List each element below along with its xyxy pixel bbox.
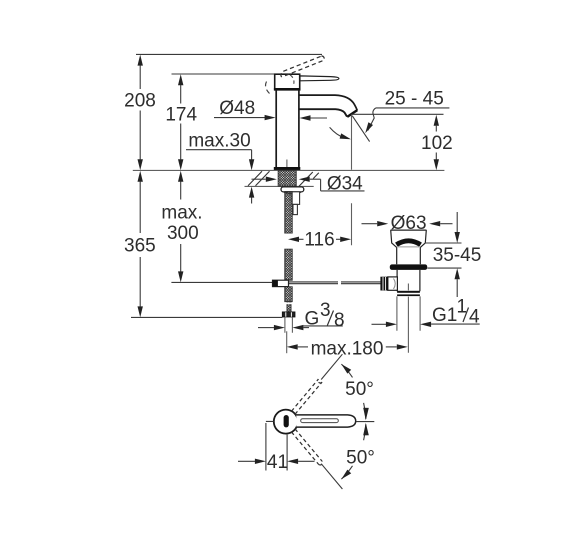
- reference line spout outlet level: [352, 113, 444, 115]
- mounting nut: [281, 187, 304, 194]
- reference line basin bottom (35-45): [427, 267, 461, 269]
- top view: lever slot: [301, 419, 339, 423]
- top view: handle pivot (black pill): [284, 415, 289, 427]
- dimension max.300 vertical: [161, 171, 202, 283]
- reference line bottom of max.300 (pop-up rod level): [171, 281, 272, 283]
- water stream vertical reference line: [351, 115, 353, 246]
- waste centerline: [407, 284, 409, 353]
- svg-text:Ø34: Ø34: [327, 173, 363, 194]
- svg-text:174: 174: [165, 104, 197, 125]
- dimension G3/8 (supply connection thread): [258, 300, 345, 333]
- dimension max.30 (deck thickness): [186, 131, 254, 204]
- hose end tube: [287, 302, 291, 312]
- top view: horizontal centerline: [266, 420, 374, 422]
- svg-text:116: 116: [304, 230, 334, 251]
- handle cap: [274, 74, 301, 89]
- svg-text:25 - 45: 25 - 45: [385, 88, 444, 109]
- pop-up waste rod (horizontal): [289, 282, 381, 284]
- svg-text:102: 102: [421, 133, 453, 154]
- top view: lever rotated +50 (dashed outline): [291, 379, 322, 414]
- deck bottom line: [245, 185, 314, 187]
- spout: [299, 95, 357, 117]
- deck (basin) top line: [133, 169, 445, 171]
- dimension 174 vertical: [165, 74, 197, 170]
- svg-text:50°: 50°: [346, 447, 375, 468]
- dashed tilt arc left of handle: [266, 82, 270, 94]
- svg-text:300: 300: [167, 223, 199, 244]
- top reference line (spout max height): [136, 53, 322, 55]
- svg-text:41: 41: [267, 452, 288, 473]
- svg-text:4: 4: [469, 306, 480, 327]
- pop-up waste plug head: [391, 230, 427, 247]
- dimension max.180 (center distance): [287, 331, 408, 359]
- reference line 174 (handle top): [172, 73, 275, 75]
- svg-text:208: 208: [124, 90, 156, 111]
- dimension Ø63 (waste flange): [362, 213, 453, 234]
- svg-text:max.: max.: [161, 203, 202, 224]
- top view: +50 arc with arrows: [341, 364, 368, 420]
- dimension 102 vertical: [421, 115, 453, 170]
- svg-text:Ø63: Ø63: [391, 213, 427, 234]
- waste body: [397, 270, 420, 291]
- faucet centerline: [286, 160, 288, 171]
- dashed pivot arc inside handle: [290, 75, 294, 84]
- dimension 365 vertical: [124, 171, 156, 318]
- dimension 35-45 (basin thickness): [433, 212, 482, 297]
- waste side port: [388, 277, 398, 290]
- lever handle (solid, horizontal): [300, 76, 339, 81]
- svg-text:Ø48: Ø48: [219, 98, 255, 119]
- knurled adjuster knob: [380, 277, 388, 291]
- svg-text:8: 8: [334, 310, 345, 331]
- top view: faucet body circle: [274, 410, 298, 434]
- lever handle raised position (dashed): [281, 56, 324, 78]
- dimension 41: [238, 423, 315, 473]
- top view: lever rotated -50 (dashed outline): [291, 429, 322, 465]
- stream swivel arc arrow: [330, 127, 351, 139]
- top view: +50 extension line: [321, 354, 342, 379]
- deck hatching: [248, 171, 319, 186]
- faucet base plate: [274, 167, 301, 170]
- waste neck: [397, 247, 421, 264]
- dimension Ø34 (deck hole): [252, 173, 365, 194]
- pull rod guide blocks: [292, 192, 300, 215]
- rod joint fitting: [273, 280, 289, 286]
- svg-text:G: G: [305, 309, 320, 330]
- label 25 - 45 (stream angle range): [365, 88, 449, 133]
- flexible supply hose lower segment: [285, 287, 292, 302]
- G3/8 hose nut: [282, 312, 295, 317]
- threaded shank through deck: [278, 171, 296, 187]
- top view: -50 arc with arrows: [341, 423, 368, 479]
- flexible supply hose (braided) upper segment: [285, 192, 292, 234]
- dimension 116 (spout projection): [288, 230, 351, 251]
- dimension Ø48 (body diameter): [214, 98, 327, 121]
- svg-text:50°: 50°: [345, 379, 374, 400]
- waste thread end bars: [397, 291, 420, 296]
- top view: -50 extension line: [321, 464, 342, 489]
- svg-text:35-45: 35-45: [433, 245, 482, 266]
- plug dome (black): [396, 241, 420, 247]
- faucet body: [276, 90, 299, 167]
- svg-text:3: 3: [320, 300, 331, 321]
- dimension G1 1/4 (waste thread): [372, 296, 481, 330]
- reference line basin top (35-45): [425, 242, 462, 244]
- svg-text:max.180: max.180: [311, 338, 384, 359]
- svg-text:G1: G1: [432, 305, 457, 326]
- reference line bottom of 365 (hose end): [131, 316, 282, 318]
- svg-text:365: 365: [124, 236, 156, 257]
- top view: lever (solid): [296, 415, 355, 427]
- svg-text:max.30: max.30: [188, 131, 250, 152]
- dimension 208 vertical: [124, 55, 156, 171]
- flexible supply hose middle segment: [285, 249, 292, 280]
- waste flange (black): [390, 264, 427, 270]
- water stream diagonal line: [352, 116, 369, 142]
